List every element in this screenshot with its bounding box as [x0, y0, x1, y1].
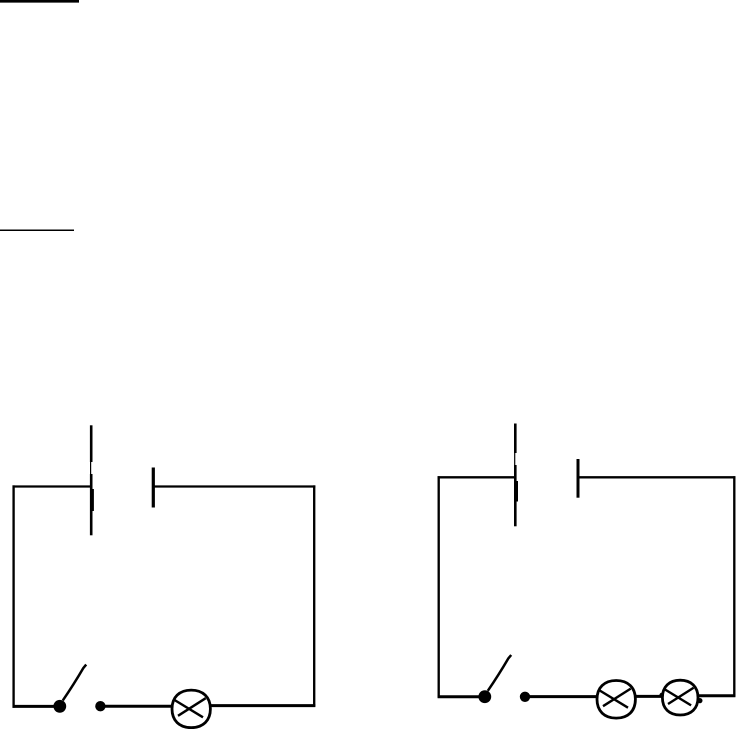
- switch S2 lever: [488, 655, 511, 691]
- switch S1 throw dot: [96, 702, 105, 711]
- wire: right circuit bottom, between lamps: [635, 695, 663, 698]
- answer blank line 1: [0, 0, 79, 3]
- wire: left circuit right side: [313, 485, 315, 706]
- wire: right circuit top-left segment: [438, 476, 516, 478]
- lamp L2: [597, 681, 635, 719]
- switch S2 throw dot: [520, 692, 529, 701]
- wire: left circuit bottom-left segment: [13, 705, 57, 708]
- wire: right circuit bottom-left segment: [438, 695, 481, 698]
- battery B2 short plate: [577, 459, 580, 498]
- answer blank line 2: [0, 229, 74, 231]
- switch S1 lever: [63, 665, 86, 701]
- battery B1 short plate: [152, 468, 155, 508]
- switch S1 pole dot: [54, 700, 66, 712]
- wire: right circuit bottom, switch to lamp L2: [525, 695, 598, 698]
- wire: left circuit left side: [12, 485, 14, 707]
- junction dot at lamp L3 left: [659, 693, 663, 697]
- wire: left circuit top-right segment: [153, 485, 315, 487]
- switch S2 pole dot: [479, 691, 491, 703]
- battery B2 long plate: [515, 424, 517, 527]
- wire: right circuit right side: [733, 476, 735, 697]
- battery B1 long plate: [91, 425, 93, 535]
- lamp L3: [662, 680, 698, 715]
- wire: right circuit bottom, lamp L3 to corner: [699, 694, 735, 697]
- wire: right circuit top-right segment: [578, 476, 735, 478]
- wire: right circuit left side: [438, 476, 440, 698]
- wire: left circuit top-left segment: [13, 485, 92, 487]
- junction dot at lamp L3 right: [697, 698, 702, 703]
- wire: left circuit bottom, lamp to corner: [211, 704, 316, 707]
- wire: left circuit bottom, switch to lamp: [100, 705, 172, 708]
- lamp L1: [172, 690, 210, 728]
